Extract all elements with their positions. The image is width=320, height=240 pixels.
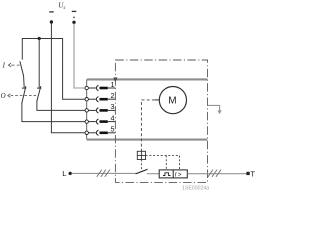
circuit breaker Q1 contact blade bbox=[136, 169, 148, 174]
pushbutton O actuation arrow bbox=[8, 94, 38, 98]
wire I bottom to O pole1 bbox=[23, 75, 26, 88]
main circuit bus top (grey band) bbox=[87, 78, 207, 80]
terminal 2 bbox=[85, 97, 115, 102]
svg-text:s: s bbox=[63, 6, 65, 11]
junction bus to O-pole2 bbox=[38, 37, 41, 40]
circuit breaker Q1 trip unit box bbox=[159, 170, 187, 179]
svg-text:>: > bbox=[178, 172, 182, 179]
wire L to breaker (grey) bbox=[72, 172, 137, 174]
wire O pole1 to terminal 4 bbox=[22, 103, 85, 121]
wire Us-left down to terminal 5 bbox=[51, 24, 85, 133]
terminal Us right bbox=[72, 11, 77, 24]
svg-text:L: L bbox=[62, 169, 66, 178]
terminal 5 bbox=[85, 130, 115, 135]
terminal 3 bbox=[85, 108, 115, 113]
pushbutton I (NO contact) blade bbox=[20, 61, 24, 75]
wire control bus bbox=[22, 39, 85, 100]
svg-text:1SE00024a: 1SE00024a bbox=[182, 185, 209, 191]
wire breaker to trip unit box (grey) bbox=[147, 173, 159, 175]
svg-text:M: M bbox=[168, 96, 176, 107]
svg-text:5: 5 bbox=[110, 125, 114, 134]
terminal Us left bbox=[49, 12, 54, 24]
svg-text:4: 4 bbox=[110, 113, 114, 122]
mechanical link actuator to trip units (dashed) bbox=[146, 155, 180, 170]
device outline left edge bbox=[86, 79, 88, 139]
enclosure boundary (dash-dot box) bbox=[115, 60, 207, 182]
wire Us-right down to terminal 1 (grey) bbox=[74, 24, 85, 88]
wire bus to O pole 2 bbox=[38, 39, 40, 88]
wire O pole2 to terminal 3 bbox=[37, 101, 85, 110]
svg-text:I: I bbox=[175, 172, 177, 179]
svg-text:T: T bbox=[250, 169, 255, 178]
pushbutton I actuation arrow bbox=[8, 63, 19, 67]
pushbutton O pole 1 (NC contact) bbox=[22, 86, 27, 104]
wire trip box to T (grey) bbox=[187, 173, 246, 175]
three-phase slashes left bbox=[97, 170, 110, 177]
pushbutton O pole 2 (NC contact) bbox=[37, 86, 42, 102]
thermal overload release symbol bbox=[163, 173, 170, 176]
supply entry arrow into top band bbox=[113, 78, 117, 83]
three-phase slashes right bbox=[208, 170, 221, 177]
mechanical link actuator to breaker contact (dashed) bbox=[140, 160, 142, 172]
terminal 1 bbox=[85, 85, 115, 90]
svg-text:2: 2 bbox=[110, 91, 114, 100]
supply label Us bbox=[58, 2, 65, 12]
wire motor stub bbox=[155, 99, 160, 101]
main circuit bus bottom (grey band) bbox=[87, 139, 208, 141]
node L bbox=[69, 172, 72, 175]
terminal 4 bbox=[85, 119, 115, 124]
wire earth arrow right of enclosure (grey) bbox=[208, 105, 222, 114]
manual actuator (square with cross) bbox=[137, 151, 145, 159]
motor M1 bbox=[159, 87, 186, 114]
node T bbox=[246, 172, 249, 175]
mechanical link motor to actuator (dashed) bbox=[141, 100, 155, 151]
svg-text:1: 1 bbox=[110, 80, 114, 89]
svg-text:3: 3 bbox=[110, 102, 114, 111]
svg-text:O: O bbox=[1, 93, 6, 100]
